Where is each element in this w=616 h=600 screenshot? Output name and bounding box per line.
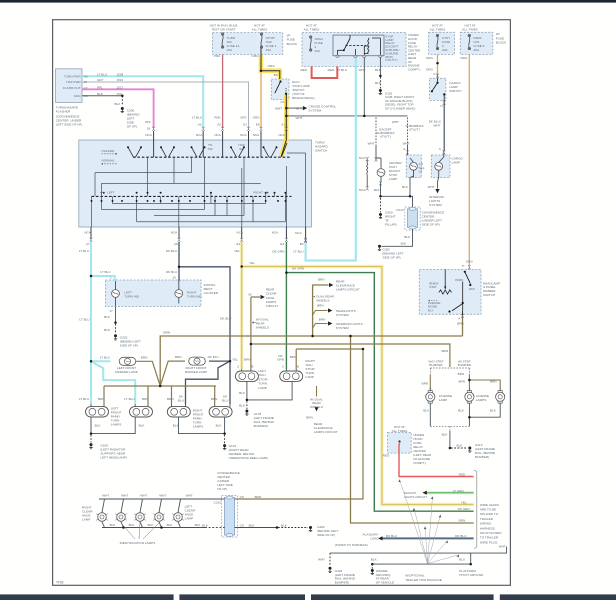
underhood center label (408, 33, 421, 71)
chmsl area labels (359, 120, 464, 259)
svg-text:COMPT.): COMPT.) (408, 67, 420, 71)
headlamp switch bottom pin (462, 311, 464, 315)
svg-text:BLK: BLK (404, 235, 411, 239)
svg-text:WHEELS: WHEELS (256, 325, 269, 329)
wire WHT lamp stubs (102, 499, 181, 512)
wire BLK dashed to G C200 (121, 96, 123, 106)
svg-text:OFF: OFF (469, 287, 475, 291)
junction cluster blk (114, 321, 117, 324)
wire BLK convenience center down (382, 229, 413, 246)
svg-text:HAZ PWR: HAZ PWR (66, 80, 81, 84)
wire PPL flasher out (82, 89, 154, 128)
arrow dual rear wheels down (314, 407, 318, 411)
junction ORG ctsy b (436, 74, 439, 78)
ground G102 (379, 89, 382, 95)
svg-text:BLK: BLK (239, 391, 246, 395)
wire YEL switch exit3 down to left tail halo (240, 242, 243, 369)
ch sel lamp box (406, 155, 421, 178)
right front marker lamp (189, 357, 206, 365)
svg-text:10: 10 (173, 276, 177, 280)
svg-text:LAMP: LAMP (389, 177, 397, 181)
relay label (385, 34, 399, 62)
chmsl resistor (367, 160, 368, 188)
svg-text:H: H (462, 264, 464, 268)
svg-text:BLK: BLK (371, 557, 378, 561)
svg-text:WIRE PLUG.: WIRE PLUG. (480, 540, 498, 544)
svg-text:1: 1 (110, 276, 112, 280)
svg-text:WHT: WHT (296, 106, 303, 110)
svg-text:LAMPS: LAMPS (193, 425, 204, 429)
svg-text:LAMP: LAMP (185, 516, 193, 520)
svg-text:CLUSTER: CLUSTER (204, 291, 219, 295)
svg-text:TURN PWR: TURN PWR (64, 75, 81, 79)
svg-text:BUMPER): BUMPER) (254, 424, 268, 428)
svg-text:NCA: NCA (278, 133, 285, 137)
wire BLK dashed frame ground (371, 564, 373, 569)
svg-text:C: C (237, 365, 239, 369)
svg-text:ORG: ORG (253, 116, 261, 120)
svg-text:NCA: NCA (237, 230, 244, 234)
wire BLK license mid (468, 407, 470, 427)
svg-text:PNK: PNK (214, 116, 221, 120)
wire BLK ch sel lamp down (409, 182, 411, 196)
I/P fuse block box (turn sig + stop/haz fuses) (212, 33, 282, 55)
svg-text:FLSHR OUT: FLSHR OUT (63, 86, 81, 90)
bracket step bumper dashed (430, 368, 469, 375)
svg-text:BLK: BLK (139, 423, 146, 427)
svg-text:LAMPS CIRCUIT: LAMPS CIRCUIT (314, 430, 338, 434)
fuse TURN SIG (221, 33, 223, 48)
front park lamp labels (79, 395, 268, 460)
svg-text:WHT: WHT (140, 494, 147, 498)
wire BRN trailer drop (351, 336, 474, 523)
svg-text:WHEELS: WHEELS (316, 298, 329, 302)
svg-text:HAZARD: HAZARD (102, 149, 115, 153)
svg-text:18: 18 (147, 127, 151, 131)
wire BRN convenience riser (235, 349, 363, 499)
svg-text:YEL: YEL (234, 249, 240, 253)
ground G202 (114, 334, 117, 340)
svg-text:TEST OR START: TEST OR START (211, 28, 235, 32)
wire BRN H2 license feed (251, 344, 450, 367)
arrow headlights system (328, 308, 332, 312)
junction BLK relay (379, 75, 382, 78)
headlamp switch park bus (445, 269, 463, 310)
wire LT BLU to park lamp 2 (91, 361, 135, 404)
svg-text:HARNESS: HARNESS (480, 526, 495, 530)
svg-text:BRN: BRN (244, 358, 251, 362)
svg-text:D: D (441, 104, 443, 108)
svg-text:WIRE LEADS: WIRE LEADS (480, 503, 499, 507)
svg-text:BRN: BRN (306, 416, 313, 420)
svg-text:LT BLU: LT BLU (79, 397, 89, 401)
wire DK BLU/WHT cargo switch to cargo lamp (443, 100, 445, 151)
svg-text:LT BLU: LT BLU (100, 270, 110, 274)
svg-text:WHT: WHT (159, 494, 166, 498)
svg-text:SW: SW (208, 147, 213, 151)
svg-text:PNK: PNK (214, 54, 221, 58)
junction YEL (240, 265, 243, 268)
wire BRN headlamp switch drop (462, 315, 464, 336)
clearance lamp 2 (115, 513, 126, 522)
svg-text:DK BLU: DK BLU (220, 316, 231, 320)
arrow backup lights circuit (422, 491, 426, 495)
svg-text:BRN: BRN (175, 355, 182, 359)
left front marker lamp (119, 357, 136, 365)
row1 upper contacts (128, 143, 287, 157)
svg-text:SW: SW (239, 147, 244, 151)
fan arrowheads (398, 480, 459, 558)
svg-text:20A: 20A (315, 49, 321, 53)
svg-text:BRN: BRN (422, 382, 429, 386)
cargo lamp box (431, 155, 450, 178)
svg-text:SYSTEM: SYSTEM (429, 203, 442, 207)
cargo lamp (435, 162, 443, 170)
clearance lamp 5 (172, 513, 183, 522)
svg-text:SIDE OF I/P): SIDE OF I/P) (120, 343, 138, 347)
svg-text:WHT: WHT (121, 494, 128, 498)
svg-text:LEFT: LEFT (107, 191, 115, 195)
svg-text:60: 60 (248, 293, 252, 297)
turn/hazard switch box (79, 140, 312, 227)
C200 ground text (114, 102, 151, 131)
headlamp switch labels (428, 259, 500, 325)
exit connectors (90, 238, 308, 242)
ch sel lamp (410, 162, 418, 170)
arrow interior lights system 2 (328, 321, 332, 325)
flasher labels (63, 75, 88, 98)
wire BRN license mid (468, 380, 470, 387)
svg-text:W/OPTIONAL: W/OPTIONAL (405, 573, 425, 577)
svg-text:BLK: BLK (490, 409, 497, 413)
wire BLK dashed to G202 bottom (278, 527, 308, 529)
svg-text:NCA: NCA (240, 133, 247, 137)
svg-text:ALL TIMES: ALL TIMES (392, 429, 408, 433)
svg-text:ORG: ORG (252, 54, 260, 58)
relay dashed link (346, 44, 367, 46)
svg-text:SYSTEM: SYSTEM (336, 326, 349, 330)
svg-text:BRN: BRN (319, 318, 326, 322)
svg-text:A7: A7 (86, 242, 90, 246)
wire LT BLU flasher turn pwr to switch (82, 76, 203, 128)
ecc stop lamp switch box (271, 79, 289, 100)
row1 contact dots (127, 146, 278, 148)
svg-text:15A: 15A (227, 48, 233, 52)
svg-text:C210: C210 (396, 208, 404, 212)
fuse PARK LPS (468, 34, 470, 49)
ground G100 (89, 443, 92, 449)
svg-text:GRY: GRY (97, 78, 104, 82)
svg-text:NCA: NCA (171, 230, 178, 234)
svg-text:A1: A1 (280, 100, 284, 104)
svg-text:BLK: BLK (375, 68, 382, 72)
headlamp pin connector (461, 314, 464, 318)
svg-text:DK BLU: DK BLU (208, 355, 219, 359)
ground G101 (223, 444, 226, 450)
junction WHT cruise (285, 107, 288, 110)
svg-text:A: A (429, 386, 431, 390)
headlamp switch lower arm (448, 302, 463, 313)
svg-text:BRN: BRN (458, 380, 465, 384)
instrument cluster box (106, 280, 202, 307)
junction DK BLU cluster (178, 266, 181, 269)
svg-text:PPL: PPL (97, 85, 103, 89)
cluster labels (100, 270, 219, 347)
svg-text:LT BLU: LT BLU (337, 68, 347, 72)
fuse block labels (227, 32, 508, 53)
wire ORG park lps fuse to headlamp switch (468, 54, 470, 266)
park lps fuse box (460, 32, 493, 54)
arrow cruise control (303, 106, 307, 110)
svg-text:IDENTIFICATION LAMPS: IDENTIFICATION LAMPS (120, 541, 156, 545)
wire BRN interior lights tap (313, 324, 328, 329)
svg-text:DK GRN: DK GRN (292, 267, 304, 271)
svg-text:BLK: BLK (375, 81, 382, 85)
svg-text:WHT: WHT (186, 494, 193, 498)
inner mesh verticals (92, 153, 306, 227)
convenience center connector bottom dashed (222, 495, 238, 537)
cargo lamp connectors (406, 150, 445, 154)
wire RED srg2 fuse U-loop (312, 67, 338, 79)
wire DK BLU auxiliary load trailer (382, 537, 474, 539)
svg-text:BLK: BLK (374, 188, 381, 192)
top title bar (0, 0, 616, 3)
right tail leads (286, 369, 296, 386)
chmsl connectors (366, 157, 382, 190)
junction BRN h1 (311, 335, 314, 338)
svg-text:BUMPER): BUMPER) (335, 580, 349, 584)
svg-text:LAMPS: LAMPS (111, 423, 122, 427)
svg-text:SYSTEM: SYSTEM (309, 109, 322, 113)
svg-text:E1: E1 (237, 242, 241, 246)
license lamp lead stubs (430, 387, 500, 407)
license lamp right (496, 391, 505, 404)
relay contact arm (343, 35, 350, 51)
svg-text:UTILITY: UTILITY (409, 128, 421, 132)
wire BLK dashed to G178 (246, 401, 248, 409)
wire ORG core (261, 49, 280, 80)
svg-text:MARKER LAMP: MARKER LAMP (115, 370, 138, 374)
svg-text:H3: H3 (84, 75, 88, 79)
left tail leads (242, 369, 251, 386)
junction flasher gnd (121, 95, 124, 98)
svg-text:LIGHTS CIRCUIT: LIGHTS CIRCUIT (404, 495, 427, 499)
relay pin ovals (336, 55, 382, 57)
svg-text:A2: A2 (217, 123, 221, 127)
svg-text:TURN IND: TURN IND (187, 295, 203, 299)
headlamp parade dashed arrow (429, 300, 439, 302)
svg-text:RIGHT: RIGHT (253, 191, 263, 195)
svg-text:E4: E4 (280, 242, 284, 246)
svg-text:FLASHER: FLASHER (56, 110, 71, 114)
wire BRN front bus (104, 385, 216, 387)
instrument cluster right turn indicator (175, 290, 183, 298)
svg-text:BLK: BLK (104, 328, 111, 332)
bottom bar segment 1 (0, 594, 174, 600)
svg-text:C8: C8 (240, 523, 244, 527)
cargo switch contacts (431, 78, 446, 100)
svg-text:BLK: BLK (110, 523, 117, 527)
svg-text:BRN: BRN (458, 372, 465, 376)
headlamp top connector (468, 265, 471, 269)
wire BRN right marker diag (160, 361, 185, 386)
right front park/turn leads (215, 404, 230, 421)
bottom bar segment 2 (179, 594, 305, 600)
tail lamp labels (232, 354, 315, 428)
cargo lamp leads (438, 151, 444, 182)
left front park/turn lamp leads (91, 404, 104, 421)
svg-text:BLK: BLK (95, 423, 102, 427)
flasher wire codes (117, 72, 124, 96)
wire BLK connector to G202 bottom (235, 527, 277, 529)
clearance lamp 3 (134, 513, 145, 522)
wire BRN rear clearance riser (313, 285, 329, 336)
svg-text:LAMP: LAMP (452, 161, 460, 165)
svg-text:BRN: BRN (98, 397, 105, 401)
clearance lamp 4 (153, 513, 164, 522)
svg-text:BLU: BLU (178, 398, 184, 402)
svg-text:BLK: BLK (281, 523, 288, 527)
svg-text:SYSTEM: SYSTEM (336, 313, 349, 317)
wire LT BLU to left marker (91, 360, 111, 362)
ctsy fuse box (429, 32, 455, 54)
svg-text:ARE TO BE: ARE TO BE (480, 508, 496, 512)
svg-text:DK BLU: DK BLU (166, 270, 177, 274)
svg-text:UTILITY): UTILITY) (385, 58, 397, 62)
wire BLK license left (429, 407, 431, 427)
wire BRN license left (429, 375, 431, 388)
svg-text:LAMP: LAMP (82, 517, 90, 521)
svg-text:WHT: WHT (102, 494, 109, 498)
wire WHT trailer ground lead (330, 547, 507, 554)
svg-text:BLK: BLK (195, 523, 202, 527)
wire BLK dashed to G303 (380, 198, 382, 213)
cluster right turn leads (178, 281, 180, 304)
svg-text:WHT: WHT (296, 116, 303, 120)
svg-text:WHT: WHT (358, 68, 365, 72)
top wire connectors (152, 127, 307, 243)
svg-text:BUMPER: BUMPER (429, 363, 443, 367)
license lamp mid (465, 391, 474, 404)
svg-text:NCA: NCA (359, 188, 366, 192)
wire LT BLU branch to cluster (91, 276, 115, 281)
trailer splice fan (400, 480, 460, 564)
svg-text:DK BLU: DK BLU (166, 249, 177, 253)
svg-text:BLK: BLK (167, 523, 174, 527)
wire BRN H3 right tail feed (296, 348, 363, 350)
headlamp rheostat coil (439, 290, 452, 294)
svg-text:RLY: RLY (428, 309, 434, 313)
svg-text:NORMAL: NORMAL (102, 159, 116, 163)
junction license blk (468, 416, 471, 419)
svg-text:BRN: BRN (167, 397, 174, 401)
svg-text:C210: C210 (214, 500, 222, 504)
wire WHT down to chmsl (375, 146, 377, 158)
ground C202 mid (378, 245, 381, 251)
wire BLK flasher gnd (82, 95, 122, 97)
svg-text:B2: B2 (274, 73, 278, 77)
contact dashed row 2 (92, 195, 292, 197)
wire BRN left tail drop (250, 297, 252, 369)
svg-text:STAT: STAT (429, 285, 437, 289)
svg-text:LP: LP (419, 170, 423, 174)
svg-text:DK BLU: DK BLU (386, 534, 397, 538)
svg-text:SWITCH: SWITCH (449, 89, 461, 93)
ground G303 (379, 213, 382, 219)
contact dashed row 1 (133, 156, 291, 158)
junction WHT relay (363, 115, 366, 118)
svg-text:C8: C8 (240, 495, 244, 499)
junction ORG ctsy a (436, 62, 439, 65)
svg-text:WIRING: WIRING (480, 522, 492, 526)
svg-text:PPL: PPL (145, 120, 151, 124)
wire BRN left marker diag (136, 361, 160, 386)
svg-text:LEFT SIDE OF I/P): LEFT SIDE OF I/P) (56, 123, 82, 127)
svg-text:ORG: ORG (466, 259, 474, 263)
ground C200 (121, 107, 124, 113)
svg-text:BLOCK: BLOCK (496, 41, 507, 45)
svg-text:BRN: BRN (457, 322, 464, 326)
svg-text:A8: A8 (174, 242, 178, 246)
left tail/stop/turn lamp (235, 371, 258, 381)
wire DK GRN switch exit4 down to right tail (285, 242, 287, 369)
turn/hazard flasher box (56, 69, 82, 103)
junction WHT chmsl (285, 115, 288, 118)
svg-text:NCA: NCA (214, 133, 221, 137)
svg-text:LOAD: LOAD (370, 537, 379, 541)
svg-text:C7: C7 (84, 86, 88, 90)
turn switch internal labels (102, 141, 329, 195)
svg-text:PARK: PARK (455, 278, 464, 282)
license lamp labels (422, 349, 497, 459)
junction BRN h3 (362, 348, 365, 351)
svg-text:NCA: NCA (196, 133, 203, 137)
flasher wire labels (97, 72, 107, 96)
wire BRN license right riser (469, 375, 500, 388)
svg-text:RED: RED (459, 473, 466, 477)
svg-text:TRAILER: TRAILER (480, 517, 494, 521)
relay coil (368, 38, 369, 54)
ground G202 bottom (309, 526, 312, 532)
wire WHT stop feed to chmsl bracket (286, 115, 407, 117)
svg-text:A3: A3 (198, 123, 202, 127)
normal dashed arrow (102, 163, 118, 165)
wire DK BLU to park lamp 4 (229, 361, 231, 404)
svg-text:RED: RED (300, 68, 307, 72)
svg-text:DK GRN: DK GRN (272, 250, 284, 254)
svg-text:BLK: BLK (114, 102, 121, 106)
svg-text:BLK: BLK (239, 403, 246, 407)
svg-text:ALL TIMES: ALL TIMES (430, 28, 446, 32)
wire LT BLU to park lamp 1 (90, 361, 92, 404)
chmsl lamp (377, 169, 385, 177)
clearance lamp labels (82, 471, 338, 545)
right front park/turn lamp (209, 407, 232, 417)
svg-text:YEL: YEL (461, 501, 467, 505)
left front park/turn lamp (86, 407, 109, 417)
svg-text:LAMPS CIRCUIT: LAMPS CIRCUIT (336, 287, 360, 291)
svg-text:GRN: GRN (277, 358, 284, 362)
convenience center connector mid body (408, 207, 418, 229)
wire BRN main bus H1 (160, 336, 462, 386)
svg-text:LT BLU: LT BLU (124, 397, 134, 401)
svg-text:BRN: BRN (318, 277, 325, 281)
junction wht gnd lead (371, 563, 374, 566)
convenience center connector mid dashed (405, 207, 420, 230)
instrument cluster left turn indicator (112, 290, 120, 298)
svg-text:LAMP: LAMP (305, 375, 313, 379)
turn switch inbound pin labels (145, 116, 285, 138)
